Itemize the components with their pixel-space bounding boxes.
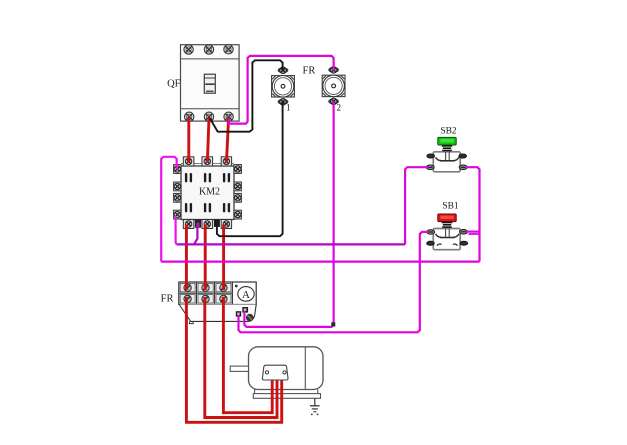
svg-text:KM2: KM2	[199, 186, 220, 197]
KM2 top terminal block 3	[221, 157, 231, 166]
wire magenta KM2 coil clamp to coil line	[194, 228, 197, 245]
wire black fuse FU1 to KM2 coil clamp	[217, 102, 283, 236]
wire magenta KM2 left lower terminal drop	[175, 216, 178, 244]
KM2 right side terminal 1	[234, 165, 241, 174]
pushbutton SB1 (stop, red) body	[433, 229, 460, 250]
wire magenta SB2 left down to coil line	[405, 167, 428, 244]
wire end lug at FU2 wire corner	[331, 322, 335, 326]
svg-text:SB1: SB1	[442, 202, 459, 212]
wire red FR to motor V	[205, 297, 277, 418]
FR lower trapezoid housing	[179, 305, 256, 324]
wire red FR to motor U	[186, 297, 281, 422]
SB1 upper terminal right	[460, 230, 468, 235]
SB2 lower terminal left	[426, 165, 434, 170]
wire red L2 QF to KM2	[207, 118, 209, 163]
QF bottom terminal screw 2	[204, 112, 213, 121]
SB2 upper terminal left	[427, 154, 435, 158]
svg-text:2: 2	[337, 103, 342, 113]
SB1 lower terminal left	[427, 241, 435, 245]
wire magenta FR aux terminal 1 to SB1 left	[239, 232, 429, 332]
circuit breaker QF body	[181, 45, 240, 121]
KM2 right side terminal 2	[234, 182, 241, 191]
KM2 bottom terminal block 1	[183, 220, 194, 229]
SB1 spring	[442, 222, 453, 228]
KM2 left side terminal 3	[174, 193, 181, 202]
FR terminal screw top 2	[202, 284, 209, 291]
fuse FU2 top screw	[328, 67, 339, 74]
KM2 contact pair bottom 3	[223, 203, 230, 212]
KM2 right side terminal 3	[234, 193, 241, 202]
SB2 lower terminal right	[459, 165, 467, 170]
svg-text:1: 1	[286, 103, 291, 113]
KM2 bottom terminal block 2	[202, 220, 213, 229]
wire red FR to motor W	[223, 297, 272, 413]
KM2 left side terminal 1	[174, 165, 181, 174]
wire magenta SB1 right to junction column	[466, 231, 480, 233]
SB2 green button cap	[438, 137, 456, 145]
fuse FU2 body	[322, 75, 345, 97]
fuse FU1 top screw	[278, 67, 289, 74]
KM2 coil clamp terminal (black wire)	[214, 220, 220, 227]
QF top terminal screw 2	[204, 45, 213, 54]
wire red KM2 to FR phase 1	[185, 225, 188, 291]
FR terminal screw top 3	[220, 284, 227, 291]
KM2 contact pair top 1	[185, 173, 192, 182]
contactor KM2 body	[181, 164, 234, 220]
KM2 left side terminal 4	[174, 210, 181, 219]
FR auxiliary contact terminal 1	[236, 311, 241, 316]
SB1 lower terminal right	[460, 241, 468, 245]
wire magenta KM2 aux top to holding line	[161, 157, 177, 262]
KM2 coil clamp terminal (magenta wire)	[195, 220, 201, 228]
SB2 spring	[442, 145, 453, 151]
wire red KM2 to FR phase 3	[222, 225, 225, 291]
wire magenta QF L3 to fuse FU2	[229, 56, 334, 124]
wire red L1 QF to KM2	[187, 118, 190, 163]
svg-text:FR: FR	[161, 294, 174, 305]
wire magenta coil line to KM2	[176, 243, 405, 245]
KM2 right side terminal 4	[234, 210, 241, 219]
KM2 bottom terminal block 3	[221, 220, 231, 229]
svg-text:SB2: SB2	[440, 127, 457, 137]
wire red KM2 to FR phase 2	[204, 225, 207, 291]
thermal relay FR body	[179, 282, 256, 305]
FR terminal screw bottom 1	[184, 295, 191, 302]
wire magenta SB1 right stub	[469, 233, 479, 235]
ammeter A	[235, 285, 254, 302]
motor junction box	[262, 365, 288, 380]
SB1 upper terminal left	[427, 230, 435, 235]
KM2 contact pair bottom 2	[204, 203, 211, 212]
wire magenta fuse FU2 down to FR aux terminal 2	[244, 101, 333, 327]
wire magenta SB2 right down to hold line	[466, 167, 480, 261]
KM2 contact pair top 3	[223, 173, 230, 182]
fuse FU2 bottom screw	[328, 98, 339, 105]
QF top terminal screw 3	[224, 45, 233, 54]
motor M body	[249, 347, 324, 390]
QF bottom terminal screw 1	[185, 112, 194, 121]
QF toggle handle	[204, 74, 215, 93]
pushbutton SB2 (start, green) body	[433, 152, 460, 172]
FR terminal screw bottom 2	[202, 295, 209, 302]
svg-text:FR: FR	[303, 66, 316, 77]
KM2 top terminal block 1	[183, 157, 194, 166]
KM2 contact pair top 2	[204, 173, 211, 182]
motor shaft	[230, 366, 248, 371]
svg-text:QF: QF	[167, 79, 181, 90]
KM2 contact pair bottom 1	[185, 203, 192, 212]
SB1 red button cap	[438, 214, 456, 222]
fuse FU1 body	[272, 76, 295, 98]
QF top terminal screw 1	[184, 45, 193, 54]
svg-text:A: A	[242, 289, 250, 301]
wire magenta holding line KM2 aux to buttons junction	[161, 261, 479, 263]
fuse FU1 bottom screw	[278, 99, 289, 106]
ground	[310, 398, 320, 415]
SB2 upper terminal right	[459, 154, 467, 158]
FR terminal screw bottom 3	[220, 295, 227, 302]
KM2 left side terminal 2	[174, 182, 181, 191]
motor base and feet	[253, 390, 320, 399]
wire black QF L2 to fuse FU1	[210, 60, 283, 131]
FR auxiliary contact terminal 2	[242, 307, 248, 313]
KM2 top terminal block 2	[202, 157, 213, 166]
QF bottom terminal screw 3	[224, 112, 233, 121]
FR terminal screw top 1	[184, 284, 191, 291]
wire red L3 QF to KM2	[227, 118, 229, 163]
